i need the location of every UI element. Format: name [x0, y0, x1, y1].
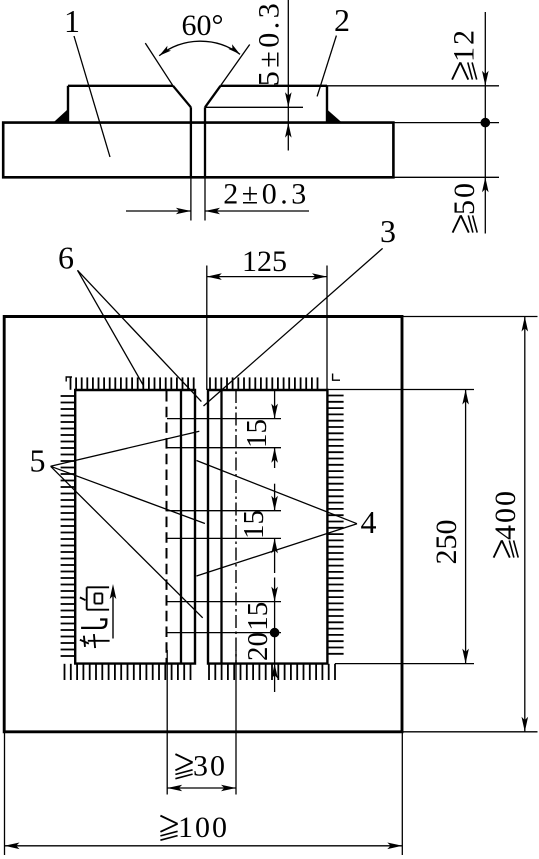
- svg-text:3: 3: [380, 213, 396, 249]
- chain arrow B: [271, 448, 278, 463]
- arrow ge400 top: [522, 317, 529, 332]
- chain ext line B: [167, 447, 281, 449]
- ext line base bottom: [393, 176, 499, 178]
- leader 1: [74, 36, 110, 157]
- 60 deg arc right arrow: [228, 44, 240, 54]
- dim line ge30: [167, 787, 236, 789]
- svg-text:125: 125: [242, 245, 287, 278]
- chain ext line E: [167, 601, 281, 603]
- left plate left edge weld hatch: [61, 395, 75, 397]
- svg-text:2: 2: [334, 2, 350, 38]
- root gap left edge: [190, 107, 192, 177]
- arrow ge100 left: [5, 843, 20, 850]
- arrow ge400 bottom: [522, 717, 529, 732]
- left test plate 2 outline: [68, 85, 173, 87]
- chain dim line segs: [274, 391, 276, 419]
- svg-text:5: 5: [30, 443, 46, 479]
- leader 5b: [51, 466, 205, 523]
- ext line interface: [393, 122, 499, 124]
- svg-text:12: 12: [448, 28, 481, 62]
- arrow 5 bottom: [285, 123, 292, 138]
- node dot interface: [481, 118, 491, 128]
- right plate top edge weld hatch: [209, 377, 211, 389]
- ext lines 250: [328, 389, 475, 391]
- arrow ge30 left: [167, 785, 182, 792]
- base plate 1 outline: [3, 123, 393, 178]
- svg-text:2±0.3: 2±0.3: [223, 178, 309, 211]
- base plate plan outline: [4, 317, 402, 732]
- right test plate 2 outline: [221, 85, 328, 87]
- chain ext line C: [167, 510, 281, 512]
- leader 6b: [78, 270, 202, 401]
- leader 4a: [197, 461, 358, 524]
- ext lines 125: [206, 266, 208, 391]
- leader 6a: [78, 270, 144, 385]
- arrow ge30 right: [221, 785, 236, 792]
- rolling direction arrow: [112, 589, 114, 639]
- dim line 2 right: [205, 210, 309, 212]
- svg-text:15: 15: [242, 602, 274, 631]
- leader 2: [317, 36, 336, 97]
- leader 5a: [51, 431, 200, 466]
- arrow 125 right: [312, 273, 327, 280]
- arrow ge50: [482, 177, 489, 192]
- root face extension line: [205, 106, 303, 108]
- arrow 250 bottom: [462, 649, 469, 664]
- text ge 50: [448, 181, 481, 233]
- right cover plate outline: [208, 390, 327, 664]
- svg-text:20: 20: [242, 632, 274, 661]
- chain arrow E: [271, 587, 278, 602]
- left plate bottom edge weld hatch: [64, 664, 66, 680]
- 60 deg arc left arrow: [159, 46, 171, 56]
- test weld left line: [180, 390, 182, 664]
- svg-text:400: 400: [489, 489, 522, 540]
- arrow 250 top: [462, 390, 469, 405]
- left cover plate outline: [75, 390, 195, 664]
- text ge 12: [448, 28, 481, 80]
- chain arrow G: [271, 664, 278, 679]
- dim line ge400: [524, 317, 526, 732]
- chain ext line A: [167, 418, 281, 420]
- gap extension lines: [190, 177, 192, 220]
- leader 3: [204, 248, 383, 406]
- chain arrow D: [271, 538, 278, 553]
- arrow ge100 right: [387, 843, 402, 850]
- svg-text:100: 100: [178, 811, 229, 844]
- ext line plate top: [327, 85, 499, 87]
- chain ext line D: [167, 537, 281, 539]
- right plate right edge weld hatch: [328, 395, 344, 397]
- ext lines ge100: [4, 732, 6, 855]
- hidden slot right edge dash-dot: [235, 390, 237, 664]
- chain dot F: [270, 628, 280, 638]
- svg-text:5±0.3: 5±0.3: [253, 0, 286, 86]
- ext lines ge400: [402, 316, 538, 318]
- chain arrow C: [271, 496, 278, 511]
- arrow 5 top: [285, 92, 292, 107]
- dim line ge100: [5, 845, 403, 847]
- dim line 125: [207, 276, 327, 278]
- dim line 5 +/- 0.3: [287, 0, 289, 151]
- left anchor fillet weld: [53, 108, 69, 122]
- rolling direction text zha-xiang: [80, 587, 110, 648]
- svg-text:60°: 60°: [182, 9, 224, 42]
- text ge 400: [489, 489, 522, 558]
- root gap right edge: [204, 107, 206, 177]
- arrow ge12: [482, 71, 489, 86]
- right anchor fillet weld: [326, 109, 342, 123]
- arrow 2 right: [205, 208, 220, 215]
- 60 deg angle arc: [159, 41, 240, 56]
- svg-text:50: 50: [448, 181, 481, 215]
- dim line 250: [465, 390, 467, 664]
- chain ext line F: [167, 632, 281, 634]
- hatch corner mark top-left: [66, 377, 72, 382]
- svg-text:30: 30: [193, 750, 227, 783]
- svg-text:15: 15: [241, 419, 273, 448]
- text ge 30: [175, 754, 192, 779]
- svg-text:4: 4: [361, 504, 377, 540]
- leader 5c: [51, 466, 203, 618]
- ext lines ge30: [166, 650, 168, 795]
- leader 4b: [197, 524, 358, 576]
- groove face extension lines: [145, 43, 173, 86]
- chain arrow A: [271, 404, 278, 419]
- right plate bottom edge weld hatch: [208, 664, 210, 680]
- svg-text:15: 15: [238, 510, 270, 539]
- left plate top edge weld hatch: [70, 377, 72, 389]
- arrow 2 left: [176, 208, 191, 215]
- dim line right stack: [484, 12, 486, 234]
- test weld right line: [220, 390, 222, 664]
- hidden slot left edge dashed: [166, 391, 168, 664]
- hatch corner mark top-right: [333, 374, 340, 381]
- svg-text:1: 1: [64, 3, 80, 39]
- svg-text:250: 250: [430, 520, 463, 565]
- dim line 2 left: [126, 210, 191, 212]
- svg-text:6: 6: [58, 240, 74, 276]
- text ge 100: [160, 816, 177, 841]
- arrow 125 left: [207, 273, 222, 280]
